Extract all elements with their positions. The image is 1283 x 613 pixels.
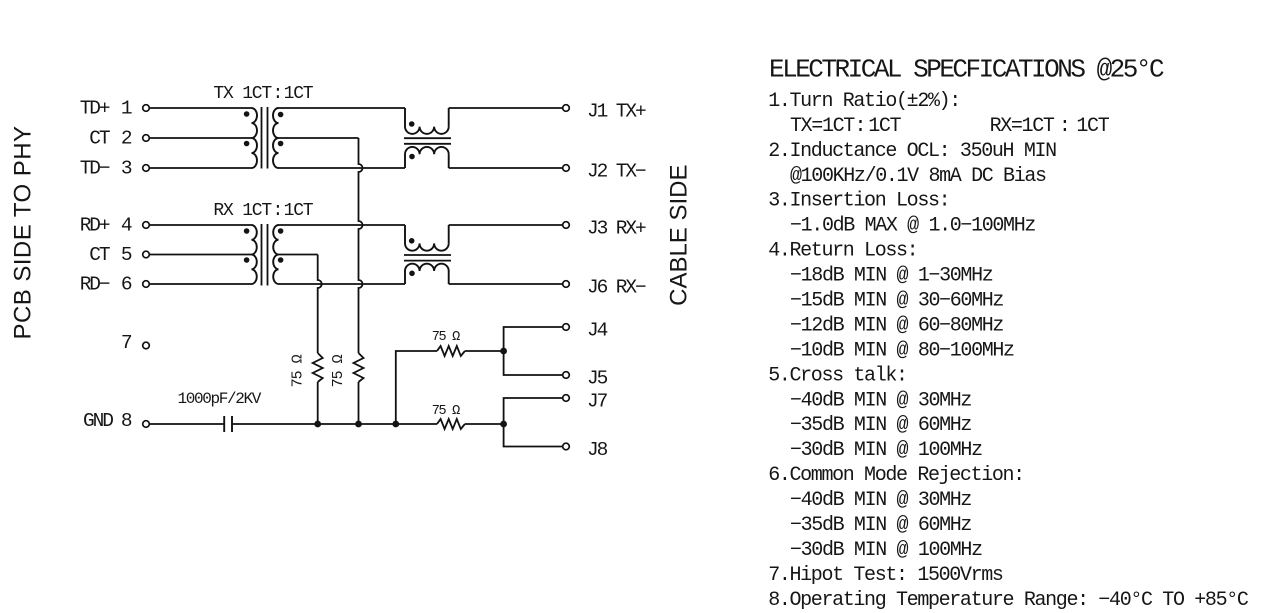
spec line 2 RX colon — [1059, 115, 1070, 138]
spec line 16 — [768, 464, 1024, 487]
terminal J6 — [563, 281, 570, 288]
svg-text:8.Operating Temperature Range:: 8.Operating Temperature Range: −40°C TO … — [768, 589, 1249, 612]
terminal pin 1 — [143, 105, 150, 112]
svg-text:−40dB MIN @ 30MHz: −40dB MIN @ 30MHz — [790, 389, 971, 412]
junction node R4/J7/J8 — [500, 421, 507, 428]
pin number 3 — [121, 158, 132, 180]
terminal J2 — [563, 165, 570, 172]
label R2 75ohm — [330, 354, 347, 387]
L2 core — [404, 255, 451, 261]
junction node R3/J4/J5 — [500, 348, 507, 355]
wire L1 bottom to J2 — [449, 167, 563, 169]
svg-text:2: 2 — [121, 128, 132, 150]
svg-text:J4: J4 — [587, 320, 608, 342]
transformer T2 (RX) primary winding — [252, 225, 257, 284]
terminal J3 — [563, 222, 570, 229]
svg-text:CT: CT — [89, 128, 110, 150]
svg-text:5: 5 — [121, 244, 132, 266]
svg-text:1CT: 1CT — [284, 84, 314, 104]
pin label CT — [89, 244, 110, 266]
resistor R4 75ohm horizontal — [437, 419, 465, 429]
pin label TD+ — [80, 98, 110, 120]
terminal pin 4 — [143, 222, 150, 229]
T1 polarity dot secondary lower — [278, 141, 284, 147]
svg-text:−10dB MIN @ 80−100MHz: −10dB MIN @ 80−100MHz — [790, 339, 1014, 362]
spec line 15 — [790, 439, 982, 462]
T1 polarity dot secondary top — [278, 112, 284, 118]
L1 top winding right vertical — [448, 108, 450, 127]
svg-text:4: 4 — [121, 215, 132, 237]
L1 core — [404, 138, 451, 144]
terminal J8 — [563, 443, 570, 450]
wire L1 top to J1 — [449, 107, 563, 109]
junction node R2/ground bus — [355, 421, 362, 428]
wire pin2 to T1 primary CT — [150, 137, 252, 139]
spec line 20 — [768, 564, 1003, 587]
label RX ratio colon — [272, 201, 282, 221]
label PCB SIDE TO PHY — [10, 126, 37, 340]
label R3 75ohm — [432, 330, 460, 345]
pin number 5 — [121, 244, 132, 266]
wire pin6 to T2 primary — [150, 283, 252, 285]
svg-text:75 Ω: 75 Ω — [432, 404, 460, 419]
svg-text:J7: J7 — [587, 391, 608, 413]
wire C1 to ground bus — [232, 423, 437, 425]
terminal J4 — [563, 324, 570, 331]
transformer T1 core — [262, 107, 268, 169]
svg-text:−40dB MIN @ 30MHz: −40dB MIN @ 30MHz — [790, 489, 971, 512]
wire T2 secondary top to L2 — [279, 224, 406, 226]
svg-text:J6 RX−: J6 RX− — [587, 277, 646, 299]
terminal pin 6 — [143, 281, 150, 288]
spec title — [769, 55, 1164, 85]
L2 polarity dot top — [409, 238, 415, 244]
svg-text:−30dB MIN @ 100MHz: −30dB MIN @ 100MHz — [790, 539, 982, 562]
wire T1 secondary top to L1 — [279, 107, 406, 109]
L1 polarity dot bottom — [409, 154, 415, 160]
wire L2 bottom to J6 — [449, 283, 563, 285]
svg-text:RX 1CT: RX 1CT — [213, 201, 272, 221]
svg-text:RX=1CT: RX=1CT — [990, 115, 1055, 138]
svg-text::: : — [272, 84, 282, 104]
terminal J1 — [563, 105, 570, 112]
T1 polarity dot primary top — [244, 111, 250, 117]
spec line 6 — [790, 215, 1035, 238]
svg-text:PCB SIDE TO PHY: PCB SIDE TO PHY — [10, 126, 37, 340]
wire pin4 to T2 primary — [150, 224, 252, 226]
svg-text:@100KHz/0.1V 8mA DC Bias: @100KHz/0.1V 8mA DC Bias — [790, 165, 1046, 188]
svg-text:TX=1CT: TX=1CT — [790, 115, 855, 138]
terminal label J6 RX− — [587, 277, 646, 299]
svg-text:75 Ω: 75 Ω — [289, 354, 306, 387]
wire pin3 to T1 primary — [150, 167, 252, 169]
terminal pin 7 — [143, 342, 150, 349]
svg-text:1CT: 1CT — [284, 201, 314, 221]
spec line 2 RX 1CT — [1076, 115, 1109, 138]
common-mode choke L2 (RX) bottom winding — [405, 264, 449, 284]
pin number 7 — [121, 332, 132, 354]
wire R4 to node J7/J8 — [465, 423, 504, 425]
label CABLE SIDE — [665, 165, 692, 306]
junction node J4-branch/ground bus — [392, 421, 399, 428]
svg-text:4.Return Loss:: 4.Return Loss: — [768, 240, 917, 263]
svg-text:J8: J8 — [587, 439, 608, 461]
svg-text:RD−: RD− — [80, 274, 110, 296]
wire T1 secondary CT to node — [279, 137, 359, 139]
L2 polarity dot bottom — [409, 271, 415, 277]
pin number 6 — [121, 274, 132, 296]
spec line 12 — [768, 364, 906, 387]
svg-text:6.Common Mode Rejection:: 6.Common Mode Rejection: — [768, 464, 1024, 487]
spec line 19 — [790, 539, 982, 562]
svg-text:J3 RX+: J3 RX+ — [587, 218, 646, 240]
svg-text:75 Ω: 75 Ω — [432, 330, 460, 345]
T1 polarity dot primary lower — [244, 141, 250, 147]
wire R2 to ground bus — [358, 382, 360, 424]
wire T2 secondary bottom to L2 — [279, 283, 406, 285]
svg-text:1000pF/2KV: 1000pF/2KV — [178, 390, 262, 408]
label TX ratio 1CT — [284, 84, 314, 104]
capacitor C1 1000pF/2KV — [224, 416, 232, 432]
spec line 7 — [768, 240, 917, 263]
terminal pin 2 — [143, 135, 150, 142]
svg-text:1: 1 — [121, 98, 132, 120]
terminal pin 8 GND — [143, 421, 150, 428]
label 1000pF/2KV — [178, 390, 262, 408]
wire pin5 to T2 primary CT — [150, 254, 252, 256]
svg-text:GND: GND — [83, 410, 113, 432]
label R1 75ohm — [289, 354, 306, 387]
wire pin8 to capacitor C1 — [150, 423, 225, 425]
terminal pin 3 — [143, 165, 150, 172]
terminal label J7 — [587, 391, 608, 413]
svg-text::: : — [1059, 115, 1070, 138]
label R4 75ohm — [432, 404, 460, 419]
wire T1 secondary bottom to L1 — [279, 167, 406, 169]
pin label GND — [83, 410, 113, 432]
label RX ratio 1CT — [284, 201, 314, 221]
T2 polarity dot secondary lower — [278, 257, 284, 263]
T2 polarity dot primary top — [244, 228, 250, 234]
T2 polarity dot secondary top — [278, 228, 284, 234]
svg-text::: : — [854, 115, 865, 138]
terminal label J5 — [587, 368, 608, 390]
wire L2 top to J3 — [449, 224, 563, 226]
spec line 21 — [768, 589, 1249, 612]
common-mode choke L1 (TX) bottom winding — [405, 147, 449, 168]
svg-text:−15dB MIN @ 30−60MHz: −15dB MIN @ 30−60MHz — [790, 290, 1003, 313]
transformer T1 (TX) secondary winding — [273, 108, 279, 168]
label TX ratio colon — [272, 84, 282, 104]
terminal label J2 TX− — [587, 161, 646, 183]
svg-text:CT: CT — [89, 244, 110, 266]
transformer T2 (RX) secondary winding — [273, 225, 278, 284]
spec line 14 — [790, 414, 971, 437]
svg-text:7.Hipot Test: 1500Vrms: 7.Hipot Test: 1500Vrms — [768, 564, 1003, 587]
pin label CT — [89, 128, 110, 150]
wire R3 to node J4/J5 — [465, 350, 504, 352]
svg-text:CABLE SIDE: CABLE SIDE — [665, 165, 692, 306]
svg-text:TD+: TD+ — [80, 98, 110, 120]
L2 top winding right vertical — [448, 225, 450, 243]
T2 polarity dot primary lower — [244, 257, 250, 263]
wire T2 secondary CT to node — [279, 254, 318, 256]
svg-text:5.Cross talk:: 5.Cross talk: — [768, 364, 906, 387]
L2 bottom winding right vertical — [448, 271, 450, 284]
transformer T1 (TX) primary winding — [252, 108, 258, 168]
svg-text:TD−: TD− — [80, 158, 110, 180]
pin number 4 — [121, 215, 132, 237]
spec line 10 — [790, 314, 1003, 337]
spec line 5 — [768, 190, 949, 213]
pin label RD− — [80, 274, 110, 296]
L1 bottom winding right vertical — [448, 154, 450, 168]
svg-text:8: 8 — [121, 410, 132, 432]
junction node R1/ground bus — [314, 421, 321, 428]
label RX ratio — [213, 201, 272, 221]
transformer T2 core — [262, 224, 268, 286]
svg-text:−18dB MIN @ 1−30MHz: −18dB MIN @ 1−30MHz — [790, 265, 993, 288]
terminal label J8 — [587, 439, 608, 461]
wire R1 to ground bus — [317, 382, 319, 424]
svg-text:TX 1CT: TX 1CT — [213, 84, 272, 104]
wire RX CT vertical with crossover hop — [318, 255, 322, 354]
svg-text::: : — [272, 201, 282, 221]
spec line 9 — [790, 290, 1003, 313]
svg-text:−35dB MIN @ 60MHz: −35dB MIN @ 60MHz — [790, 514, 971, 537]
spec line 1 — [768, 90, 960, 113]
wire node to J7 and J8 — [504, 398, 563, 447]
common-mode choke L2 (RX) top winding — [405, 225, 449, 251]
svg-text:−30dB MIN @ 100MHz: −30dB MIN @ 100MHz — [790, 439, 982, 462]
spec line 17 — [790, 489, 971, 512]
terminal label J4 — [587, 320, 608, 342]
svg-text:75 Ω: 75 Ω — [330, 354, 347, 387]
spec line 3 — [768, 140, 1056, 163]
svg-text:6: 6 — [121, 274, 132, 296]
wire node to R3 — [396, 351, 437, 424]
spec line 8 — [790, 265, 993, 288]
svg-text:−12dB MIN @ 60−80MHz: −12dB MIN @ 60−80MHz — [790, 314, 1003, 337]
svg-text:RD+: RD+ — [80, 215, 110, 237]
spec line 2 RX part — [990, 115, 1055, 138]
svg-text:1.Turn Ratio(±2%):: 1.Turn Ratio(±2%): — [768, 90, 960, 113]
terminal pin 5 — [143, 251, 150, 258]
spec line 13 — [790, 389, 971, 412]
spec line 2 TX 1CT — [868, 115, 901, 138]
svg-text:ELECTRICAL SPECFICATIONS @25°C: ELECTRICAL SPECFICATIONS @25°C — [769, 55, 1164, 85]
spec line 18 — [790, 514, 971, 537]
spec line 2 TX part — [790, 115, 855, 138]
svg-text:7: 7 — [121, 332, 132, 354]
terminal label J3 RX+ — [587, 218, 646, 240]
terminal J5 — [563, 372, 570, 379]
label TX ratio — [213, 84, 272, 104]
svg-text:3.Insertion Loss:: 3.Insertion Loss: — [768, 190, 949, 213]
svg-text:J1 TX+: J1 TX+ — [587, 101, 646, 123]
spec line 2 TX colon — [854, 115, 865, 138]
svg-text:J5: J5 — [587, 368, 608, 390]
common-mode choke L1 (TX) top winding — [405, 108, 449, 134]
svg-text:1CT: 1CT — [868, 115, 901, 138]
svg-text:−35dB MIN @ 60MHz: −35dB MIN @ 60MHz — [790, 414, 971, 437]
resistor R1 75ohm vertical — [313, 353, 323, 382]
resistor R3 75ohm horizontal — [437, 346, 465, 356]
wire TX CT vertical with crossover hops — [359, 138, 363, 353]
pin number 8 — [121, 410, 132, 432]
pin number 2 — [121, 128, 132, 150]
spec line 11 — [790, 339, 1014, 362]
L1 polarity dot top — [409, 121, 415, 127]
svg-text:−1.0dB MAX @ 1.0−100MHz: −1.0dB MAX @ 1.0−100MHz — [790, 215, 1035, 238]
svg-text:3: 3 — [121, 158, 132, 180]
pin label TD− — [80, 158, 110, 180]
pin label RD+ — [80, 215, 110, 237]
terminal label J1 TX+ — [587, 101, 646, 123]
wire node to J4 and J5 — [504, 327, 563, 375]
terminal J7 — [563, 395, 570, 402]
spec line 4 — [790, 165, 1046, 188]
pin number 1 — [121, 98, 132, 120]
svg-text:1CT: 1CT — [1076, 115, 1109, 138]
svg-text:2.Inductance OCL: 350uH MIN: 2.Inductance OCL: 350uH MIN — [768, 140, 1056, 163]
svg-text:J2 TX−: J2 TX− — [587, 161, 646, 183]
wire pin1 to T1 primary — [150, 107, 252, 109]
resistor R2 75ohm vertical — [354, 353, 364, 382]
